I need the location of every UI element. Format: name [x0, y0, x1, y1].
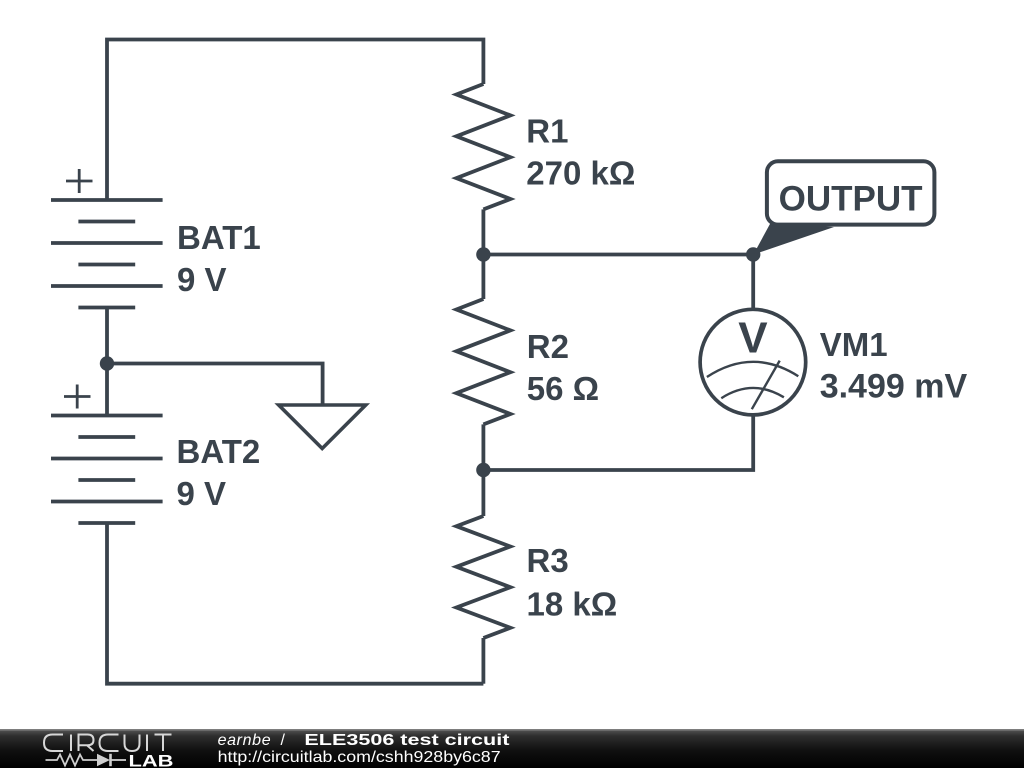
svg-text:BAT1: BAT1 — [177, 219, 261, 256]
svg-text:9 V: 9 V — [177, 475, 227, 512]
svg-text:3.499 mV: 3.499 mV — [820, 368, 968, 406]
svg-text:LAB: LAB — [129, 753, 174, 768]
svg-text:270 kΩ: 270 kΩ — [526, 154, 635, 191]
svg-text:R1: R1 — [526, 113, 568, 150]
svg-text:18 kΩ: 18 kΩ — [527, 586, 618, 623]
svg-text:http://circuitlab.com/cshh928b: http://circuitlab.com/cshh928by6c87 — [218, 749, 501, 766]
svg-text:OUTPUT: OUTPUT — [779, 179, 923, 218]
svg-text:R2: R2 — [527, 328, 569, 365]
svg-text:BAT2: BAT2 — [177, 433, 261, 470]
svg-text:56 Ω: 56 Ω — [527, 370, 599, 407]
svg-text:R3: R3 — [527, 542, 569, 579]
svg-text:earnbe / ELE3506 test circuit: earnbe / ELE3506 test circuit — [218, 732, 511, 749]
svg-text:V: V — [738, 314, 768, 363]
svg-text:VM1: VM1 — [820, 326, 888, 363]
svg-text:9 V: 9 V — [177, 261, 227, 298]
